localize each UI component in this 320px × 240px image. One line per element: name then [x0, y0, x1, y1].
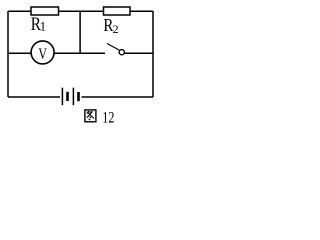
- svg-text:2: 2: [113, 22, 119, 36]
- svg-text:1: 1: [40, 18, 47, 33]
- svg-text:12: 12: [102, 109, 114, 126]
- svg-text:V: V: [38, 46, 47, 63]
